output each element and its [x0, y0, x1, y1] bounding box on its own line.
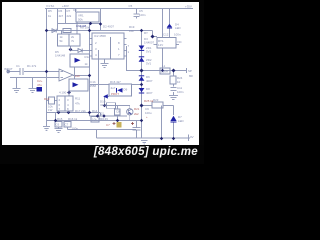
svg-text:C7: C7 [65, 123, 69, 127]
IC2 4558 box [92, 33, 124, 59]
svg-text:8R: 8R [189, 74, 193, 78]
svg-text:4 100: 4 100 [59, 91, 67, 95]
wire R22 row [141, 105, 143, 107]
junction x100 y24 [99, 22, 102, 25]
svg-text:4558: 4558 [90, 84, 97, 88]
wire input row [8, 71, 47, 73]
wire left vertical bus [46, 9, 48, 127]
svg-text:50k: 50k [78, 18, 83, 22]
svg-text:+35V: +35V [185, 5, 192, 9]
wire bottom left ground leg [58, 121, 60, 129]
wire bottom right rail y138 [97, 135, 191, 142]
inductor L1 box [160, 68, 170, 74]
wire zobel leg x173 [173, 71, 175, 96]
ground bottom right rail [141, 141, 148, 145]
junction x97 y116 [96, 114, 99, 117]
svg-text:R14: R14 [92, 109, 98, 113]
wire fb drop x96.5 [96, 130, 98, 139]
wire output row y70.5 [127, 68, 188, 73]
resistor R8 box [63, 29, 71, 33]
svg-text:C12: C12 [163, 32, 169, 36]
svg-text:5V1: 5V1 [146, 62, 152, 66]
junction box C pin b [67, 111, 70, 114]
junction x173 y70 [172, 69, 176, 73]
diode D6 bar [139, 75, 144, 77]
svg-text:+40V: +40V [62, 4, 69, 8]
wire C4 branch [75, 9, 77, 13]
wire relay bottom x162 [162, 48, 164, 71]
diode D8 bar [139, 92, 144, 94]
svg-text:10uH: 10uH [161, 70, 168, 74]
wire row y120 [47, 120, 142, 122]
IC2 internal divider [110, 37, 112, 59]
op-amp IC3 symbol triangle [73, 82, 79, 87]
svg-text:10: 10 [177, 80, 181, 84]
feedback网络 box [91, 117, 99, 123]
wire box3 bottom [105, 97, 110, 106]
wire noninverting row y77.5 [10, 77, 59, 79]
wire LED D4 column x172 [169, 9, 171, 38]
svg-text:R11: R11 [75, 97, 80, 101]
wire relay feed x152 [153, 31, 158, 37]
svg-text:R8 10k: R8 10k [80, 26, 90, 30]
svg-text:R25 1k: R25 1k [144, 99, 154, 103]
page background [0, 0, 204, 164]
svg-text:R12: R12 [85, 55, 91, 59]
opamp input marks [61, 72, 64, 78]
svg-text:4007: 4007 [146, 91, 153, 95]
wire opamp inverting input [47, 71, 60, 73]
junction bus x46 y71.5 [45, 70, 48, 73]
wire C10 cap leg [136, 121, 138, 139]
LED D4 bar [167, 27, 172, 29]
capacitor C1 plates [20, 68, 23, 75]
svg-text:5V1: 5V1 [146, 50, 152, 54]
svg-text:4u7: 4u7 [111, 86, 116, 90]
svg-text:10k: 10k [129, 29, 134, 33]
svg-text:4007: 4007 [146, 79, 153, 83]
svg-text:Q2: Q2 [100, 112, 104, 116]
IC timer box C [57, 96, 73, 111]
wire top +35V rail [45, 8, 193, 10]
diode D5 symbol [71, 49, 90, 53]
op-amp A1 triangle [59, 69, 73, 81]
pot VR1 box [76, 12, 99, 22]
wire LED D7 column [173, 106, 175, 139]
svg-text:R21: R21 [134, 107, 140, 111]
svg-text:C6: C6 [56, 123, 60, 127]
wire feedback bus x98.5 [98, 50, 100, 116]
svg-text:R16 1k: R16 1k [68, 117, 78, 121]
junction x117 y120 [116, 119, 119, 122]
svg-text:4k7: 4k7 [59, 14, 64, 18]
relay pin stubs [154, 44, 180, 46]
junction U1 bottom [69, 48, 73, 52]
svg-text:R5: R5 [48, 9, 52, 13]
capacitor C5 plates [134, 14, 140, 17]
U1 internal divider [68, 34, 70, 46]
junction x162 y70 [161, 69, 164, 72]
junction rail x161 [160, 137, 163, 140]
junction bus x46 y30.5 [45, 29, 48, 32]
ground input right [29, 89, 37, 93]
IC2 left pin stubs [90, 39, 93, 57]
svg-text:C5: C5 [129, 4, 133, 8]
diode D8 down [139, 88, 145, 92]
svg-text:100n: 100n [72, 127, 79, 131]
svg-text:100n: 100n [174, 32, 181, 36]
svg-text:LED: LED [175, 26, 181, 30]
junction box B to C [67, 91, 71, 95]
svg-text:100n: 100n [139, 13, 146, 17]
wire diode column x141 [141, 31, 143, 139]
wire node row y23.5 [58, 23, 101, 25]
svg-text:INPUT: INPUT [4, 67, 13, 71]
junction x89 y113 [88, 111, 91, 114]
IC C bottom pins [59, 111, 69, 113]
wire IC2 ground leg [104, 59, 106, 63]
wire speaker row y105 [142, 105, 174, 107]
junction box C pin a [57, 111, 60, 114]
junction x152 y36 [151, 35, 155, 39]
diode bar in box IC3 [116, 88, 118, 93]
resistor R10 box [49, 97, 55, 104]
wire node row y30.5 [47, 30, 90, 32]
svg-text:BD139: BD139 [99, 117, 108, 121]
wire R5 branch [57, 9, 59, 31]
wire R6 branch [65, 9, 67, 24]
text labels grey [4, 4, 194, 139]
diode D6 up [139, 77, 145, 81]
svg-text:10k: 10k [92, 118, 97, 122]
wire bottom mid row y129 [68, 127, 137, 130]
svg-text:R1 47k: R1 47k [27, 64, 37, 68]
IC C left feed [47, 100, 58, 102]
bottom left cap box C7 [64, 122, 71, 128]
wire stub x55 [55, 113, 57, 121]
comparator IC box B [69, 79, 88, 91]
diode D3 bar [139, 49, 144, 51]
wire opamp output [73, 75, 90, 77]
svg-text:SP: SP [188, 69, 192, 73]
zener ZD1 bar [139, 56, 144, 58]
svg-text:1W: 1W [48, 108, 53, 112]
capacitor C7 orange body [117, 122, 122, 128]
resistor R24 box [170, 76, 176, 84]
svg-text:C1: C1 [16, 64, 20, 68]
ground IC2 [101, 64, 109, 68]
wire IC2 supply x100 [100, 9, 102, 31]
junction x141 y30.5 [140, 29, 143, 32]
junction x141 y120.5 [140, 119, 143, 122]
diode D3 down [139, 46, 145, 50]
capacitor zobel plates [171, 88, 177, 91]
svg-text:D9: D9 [124, 88, 128, 92]
U1 top feeds [62, 22, 78, 34]
diode D1 symbol [52, 29, 56, 33]
wire base row y116 [90, 115, 128, 117]
wire box3 link [90, 84, 142, 86]
wire feedback row y113 [47, 113, 101, 117]
svg-text:R17 22k: R17 22k [75, 109, 86, 113]
svg-text:12V: 12V [158, 43, 163, 47]
junction x55 y120.5 [54, 119, 57, 122]
text labels red [37, 74, 154, 127]
comparator IC box A [70, 54, 90, 67]
relay RY1 box [157, 38, 176, 49]
wire input filter legs [17, 78, 33, 89]
electrolytic C8 plus cap [113, 122, 135, 125]
svg-text:RY: RY [144, 31, 148, 35]
svg-text:22k: 22k [67, 14, 72, 18]
svg-text:LED: LED [178, 119, 184, 123]
junction x104 y116 [102, 114, 105, 117]
input cap blob [37, 87, 43, 92]
svg-text:1N4007: 1N4007 [144, 41, 155, 45]
op-amp U1 box [58, 34, 81, 46]
svg-text:F1 5A: F1 5A [47, 4, 55, 8]
svg-text:R16 4k7: R16 4k7 [110, 80, 121, 84]
ground bottom left cap [55, 129, 63, 133]
wire middle bus x89 [89, 24, 91, 117]
junction x141 y105 [140, 104, 144, 108]
svg-text:1N4148: 1N4148 [55, 54, 66, 58]
wire speaker drive row y105.5 [105, 106, 130, 121]
resistor R23 box [152, 102, 163, 108]
IC C internal divider [64, 96, 66, 111]
LED D4 [167, 24, 172, 28]
svg-text:D2 4007: D2 4007 [103, 25, 114, 29]
wire IC2 output to out rail [126, 46, 128, 71]
junction rail x173 [172, 137, 175, 140]
LED D7 [170, 116, 176, 121]
svg-text:1k0: 1k0 [75, 74, 80, 78]
junction x89 y75 [88, 74, 91, 77]
wire C5 branch [136, 9, 138, 19]
transistor Q2 [127, 109, 133, 115]
U1 bottom leg [70, 46, 72, 51]
svg-text:R15: R15 [57, 117, 63, 121]
IC2 right pin stubs [124, 39, 127, 57]
input terminal [7, 70, 9, 74]
wire cap C7 legs [117, 106, 119, 121]
base cap box [115, 109, 121, 115]
LED D7 bar [171, 121, 177, 123]
capacitor C10 plates [133, 128, 141, 131]
svg-text:R10: R10 [44, 97, 50, 101]
svg-text:R6: R6 [59, 9, 63, 13]
box B bottom leg [68, 91, 70, 96]
junction x90 y23.5 [89, 22, 92, 25]
protection box IC3 [109, 84, 132, 96]
wire x161 down [161, 106, 163, 139]
wire relay top x162 [162, 9, 164, 38]
zener ZD1 up [139, 58, 145, 62]
svg-text:IC2 4558: IC2 4558 [94, 34, 106, 38]
op-amp IC1 symbol triangle [75, 58, 81, 63]
ground zobel [169, 96, 178, 100]
svg-text:C4: C4 [73, 8, 77, 12]
svg-text:0V: 0V [190, 135, 194, 139]
svg-text:PROT: PROT [111, 92, 119, 96]
ground bottom left bus [43, 127, 50, 131]
junction x89 y30.5 [88, 29, 91, 32]
svg-text:R7: R7 [67, 9, 71, 13]
wire box A bottom leg [74, 67, 76, 79]
resistor R22 box [107, 103, 116, 108]
svg-text:+: + [146, 115, 148, 119]
svg-text:100n: 100n [177, 90, 184, 94]
transistor emitter arrow dark [129, 113, 131, 115]
diode D10 [103, 94, 108, 98]
ground input left [13, 89, 21, 93]
svg-text:2k2: 2k2 [134, 112, 139, 116]
svg-text:C8: C8 [116, 110, 120, 114]
svg-text:4148: 4148 [100, 103, 107, 107]
diode in box IC3 [117, 88, 122, 93]
bottom left cap box C6 [55, 122, 62, 128]
input jack circle [7, 70, 10, 73]
svg-text:NC: NC [178, 40, 182, 44]
svg-text:47k: 47k [75, 102, 80, 106]
svg-text:L1: L1 [162, 64, 166, 68]
svg-text:C7: C7 [106, 123, 110, 127]
junction x141 y70 [140, 69, 144, 73]
wire node row y30 [90, 30, 153, 32]
svg-text:R23: R23 [153, 98, 159, 102]
junction x141 y84.5 [140, 83, 143, 86]
junction x104 y105.5 [103, 104, 106, 107]
svg-text:47u: 47u [37, 83, 42, 87]
